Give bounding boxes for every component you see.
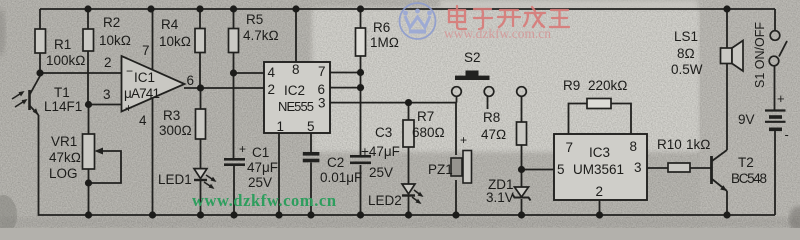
- wire speaker line from top bus: [726, 9, 728, 48]
- node R6 pin6: [357, 84, 364, 91]
- svg-text:R10: R10: [657, 137, 682, 152]
- svg-text:R3: R3: [163, 108, 180, 123]
- svg-text:C3: C3: [375, 125, 392, 140]
- svg-text:47Ω: 47Ω: [481, 127, 506, 142]
- svg-text:1kΩ: 1kΩ: [686, 137, 711, 152]
- transistor T2: [712, 150, 768, 191]
- svg-text:25V: 25V: [248, 175, 272, 190]
- node bottom bus IC1 pin4: [149, 211, 156, 218]
- wire R7 top from pin3 node: [408, 103, 410, 120]
- wire R1 bottom to T1 collector node: [39, 53, 41, 73]
- 王: [550, 10, 569, 27]
- svg-text:0.5W: 0.5W: [671, 62, 703, 77]
- wire left chain R1 top: [39, 9, 41, 29]
- node R6 pin7: [357, 69, 364, 76]
- svg-text:2: 2: [596, 184, 604, 199]
- wire ZD1 to bottom bus: [521, 199, 523, 215]
- resistor R1: [35, 29, 86, 68]
- svg-text:3: 3: [634, 160, 642, 175]
- svg-text:0.01μF: 0.01μF: [320, 170, 362, 185]
- svg-text:4: 4: [268, 65, 276, 80]
- svg-text:8Ω: 8Ω: [677, 46, 695, 61]
- resistor R2: [83, 15, 131, 51]
- node NE555 pin8 top: [292, 5, 299, 12]
- svg-text:C1: C1: [252, 145, 269, 160]
- node ZD1 top: [518, 166, 525, 173]
- node R4 top: [196, 5, 203, 12]
- svg-text:R4: R4: [161, 17, 179, 32]
- 发: [524, 7, 545, 27]
- svg-text:6: 6: [187, 73, 195, 88]
- node NE555 pin4 / R5: [230, 69, 237, 76]
- wire S2 right terminal to R8: [521, 97, 523, 123]
- wire R5 bottom through pin4 node to C1: [233, 53, 235, 159]
- node R7 top: [405, 99, 412, 106]
- wire NE555 pin7 to R6: [330, 72, 361, 74]
- 子: [474, 9, 492, 29]
- capacitor C3: [350, 125, 400, 180]
- svg-text:T1: T1: [54, 85, 70, 100]
- wire R3 to LED1: [200, 139, 202, 169]
- resistor R9: [563, 78, 628, 109]
- wire C3 to bottom bus: [360, 165, 362, 215]
- svg-text:LOG: LOG: [49, 166, 78, 181]
- wire NE555 pin4: [234, 72, 265, 74]
- piezo PZ1: [428, 133, 472, 183]
- wire R4 bottom to output node: [199, 53, 201, 89]
- wire NE555 pin6 to R6 line: [330, 87, 361, 89]
- resistor R10: [657, 137, 711, 172]
- svg-text:7: 7: [142, 43, 150, 58]
- svg-text:1MΩ: 1MΩ: [370, 35, 399, 50]
- light scan zone: [312, 8, 700, 152]
- svg-text:100kΩ: 100kΩ: [46, 53, 86, 68]
- svg-text:LS1: LS1: [674, 29, 698, 44]
- svg-text:T2: T2: [738, 155, 754, 170]
- wire C2 to bottom bus: [310, 163, 312, 216]
- wire node B down to VR1: [88, 105, 90, 135]
- wire R6 top: [360, 9, 362, 28]
- wire S2 middle terminal stub: [487, 97, 489, 110]
- svg-text:+: +: [460, 133, 467, 147]
- wire R2 top: [87, 9, 89, 29]
- zener ZD1: [486, 177, 531, 205]
- switch S1: [753, 22, 787, 88]
- node R6 top: [357, 5, 364, 12]
- svg-text:NE555: NE555: [278, 99, 314, 114]
- wire R2 bottom to node B: [87, 51, 89, 105]
- wire top bus: [40, 8, 775, 10]
- wire bottom bus: [40, 214, 775, 216]
- svg-text:680Ω: 680Ω: [412, 125, 445, 140]
- node B divider: [85, 101, 92, 108]
- phototransistor T1: [12, 76, 82, 115]
- node speaker top: [723, 5, 730, 12]
- svg-text:25V: 25V: [369, 165, 393, 180]
- wire R8 to ZD1 node: [521, 145, 523, 187]
- wire IC1 pin7 to top bus: [152, 9, 154, 70]
- wire R9 loop left: [569, 104, 588, 135]
- svg-text:R9: R9: [563, 78, 580, 93]
- wire NE555 pin5 to C2: [310, 133, 312, 152]
- svg-text:UM3561: UM3561: [573, 162, 624, 177]
- node bottom bus C2: [307, 211, 314, 218]
- svg-text:2: 2: [268, 82, 276, 97]
- wire IC1 pin4 to bottom bus: [152, 98, 154, 215]
- resistor R7: [403, 109, 445, 147]
- svg-text:4.7kΩ: 4.7kΩ: [243, 28, 279, 43]
- wire LED1 to bottom bus: [200, 181, 202, 215]
- svg-text:R1: R1: [54, 37, 71, 52]
- resistor R8: [481, 110, 527, 145]
- node R2 top: [84, 5, 91, 12]
- 开: [498, 10, 520, 27]
- svg-text:300Ω: 300Ω: [159, 123, 192, 138]
- svg-text:4: 4: [139, 113, 147, 128]
- svg-text:-: -: [785, 127, 789, 142]
- watermark logo W glyph: [403, 9, 432, 32]
- speaker LS1: [671, 29, 743, 77]
- wire VR1 wiper loop: [89, 151, 122, 183]
- svg-text:R5: R5: [246, 12, 263, 27]
- pushbutton S2: [452, 50, 527, 96]
- wire ZD1 node to IC3 pin5: [522, 169, 555, 171]
- timer IC2 NE555: [264, 62, 330, 134]
- right column tint: [700, 0, 800, 228]
- wire IC3 pin2 to bottom bus: [599, 200, 601, 215]
- svg-text:8: 8: [630, 139, 638, 154]
- svg-text:1: 1: [277, 119, 285, 134]
- LED2: [368, 184, 424, 208]
- wire PZ1 bottom to bus: [455, 180, 457, 215]
- svg-text:−: −: [126, 64, 133, 78]
- watermark chinese characters: [449, 6, 569, 29]
- svg-text:S1 ON/OFF: S1 ON/OFF: [753, 22, 767, 88]
- node IC1 pin7 top: [147, 5, 154, 12]
- svg-text:IC2: IC2: [284, 83, 305, 98]
- svg-text:+: +: [125, 101, 132, 115]
- svg-text:7: 7: [318, 64, 326, 79]
- LED1: [158, 169, 217, 189]
- node R5 top: [230, 5, 237, 12]
- resistor R5: [229, 12, 279, 53]
- svg-text:www.dzkfw.com.cn: www.dzkfw.com.cn: [444, 26, 551, 41]
- wire NE555 pin3 run: [330, 102, 457, 104]
- svg-text:www.dzkfw.com.cn: www.dzkfw.com.cn: [192, 191, 336, 210]
- wire PZ1 top: [455, 103, 457, 155]
- wire R9 loop right: [611, 104, 631, 135]
- wire R10 to T2 base: [690, 167, 711, 169]
- wire T1 emitter down to bottom bus: [39, 115, 41, 215]
- op-amp IC1: [103, 43, 194, 128]
- node bottom bus IC3 pin2: [596, 211, 603, 218]
- svg-text:+: +: [777, 91, 785, 106]
- node bottom bus PZ1: [452, 211, 459, 218]
- svg-text:IC1: IC1: [134, 70, 155, 85]
- svg-text:L14F1: L14F1: [44, 99, 82, 114]
- resistor R3: [159, 108, 206, 139]
- svg-text:R7: R7: [417, 109, 434, 124]
- node bottom bus C3: [357, 211, 364, 218]
- svg-text:2: 2: [104, 55, 112, 70]
- svg-text:LED2: LED2: [368, 193, 402, 208]
- wire S1 to battery plus: [774, 66, 776, 110]
- svg-text:+47μF: +47μF: [361, 144, 400, 159]
- wire IC3 pin3 to R10: [647, 167, 668, 169]
- wire speaker to T2 collector: [726, 64, 728, 151]
- svg-text:220kΩ: 220kΩ: [588, 78, 628, 93]
- wire battery minus to bottom bus corner: [774, 131, 776, 215]
- svg-text:8: 8: [292, 62, 300, 77]
- resistor R6: [356, 20, 400, 56]
- svg-text:R2: R2: [103, 15, 120, 30]
- svg-text:5: 5: [557, 162, 565, 177]
- capacitor C2: [303, 152, 363, 185]
- svg-text:47kΩ: 47kΩ: [49, 150, 81, 165]
- svg-text:μA741: μA741: [124, 86, 160, 101]
- svg-text:LED1: LED1: [158, 172, 192, 187]
- wire R4 top: [199, 9, 201, 29]
- svg-text:R8: R8: [483, 110, 500, 125]
- svg-text:VR1: VR1: [51, 134, 77, 149]
- svg-text:IC3: IC3: [589, 145, 610, 160]
- wire R5 top: [233, 9, 235, 29]
- wire top bus right corner down to S1: [774, 9, 776, 31]
- svg-text:S2: S2: [464, 50, 481, 65]
- wire output node to R3: [200, 88, 202, 109]
- wire IC1 output to NE555 pin2: [184, 87, 264, 89]
- svg-text:7: 7: [566, 140, 574, 155]
- svg-text:10kΩ: 10kΩ: [99, 33, 131, 48]
- 电: [449, 6, 466, 29]
- wire C1 to bottom bus: [233, 166, 235, 215]
- node bottom bus NE555 pin1: [275, 211, 282, 218]
- svg-text:9V: 9V: [738, 112, 755, 127]
- capacitor C1: [224, 142, 278, 190]
- wire NE555 pin8 to top bus: [295, 9, 297, 62]
- svg-text:3: 3: [318, 96, 326, 111]
- svg-text:R6: R6: [373, 20, 390, 35]
- svg-text:47μF: 47μF: [247, 160, 278, 175]
- node IC1 output: [197, 84, 204, 91]
- node bottom bus LED2: [405, 211, 412, 218]
- svg-text:5: 5: [307, 119, 315, 134]
- svg-text:3: 3: [103, 87, 111, 102]
- svg-text:PZ1: PZ1: [428, 162, 453, 177]
- wire VR1 bottom to bottom bus: [88, 169, 90, 215]
- svg-text:BC548: BC548: [731, 171, 767, 186]
- svg-text:10kΩ: 10kΩ: [159, 34, 191, 49]
- light strip above top bus right part: [440, 0, 698, 9]
- potentiometer VR1: [49, 134, 103, 181]
- resistor R4: [159, 17, 205, 53]
- svg-text:+: +: [239, 142, 246, 156]
- node bottom bus VR1: [85, 211, 92, 218]
- watermark logo circle: [400, 3, 436, 39]
- wire node A to IC1 pin2: [40, 72, 121, 74]
- svg-text:C2: C2: [327, 155, 344, 170]
- wire R6 bottom through nodes to C3: [360, 56, 362, 155]
- node T1 collector: [36, 69, 43, 76]
- wire LED2 to bottom bus: [408, 197, 410, 216]
- IC3 UM3561: [554, 134, 647, 200]
- node bottom bus T2 emitter: [723, 211, 730, 218]
- bottom strip tint: [0, 217, 800, 228]
- battery 9V: [738, 91, 789, 142]
- wire T2 emitter to bottom bus: [726, 191, 728, 215]
- wire pin3 up to S2 left terminal: [456, 97, 458, 103]
- wire node B to IC1 pin3: [89, 104, 122, 106]
- wire R7 to LED2: [408, 147, 410, 184]
- wire NE555 pin1 to bottom bus: [278, 133, 280, 215]
- node bottom bus ZD1: [518, 211, 525, 218]
- corner smudges: [0, 195, 17, 235]
- node bottom bus C1: [230, 211, 237, 218]
- node VR1 loop: [85, 179, 92, 186]
- svg-text:3.1V: 3.1V: [486, 190, 514, 205]
- node bottom bus LED1: [197, 211, 204, 218]
